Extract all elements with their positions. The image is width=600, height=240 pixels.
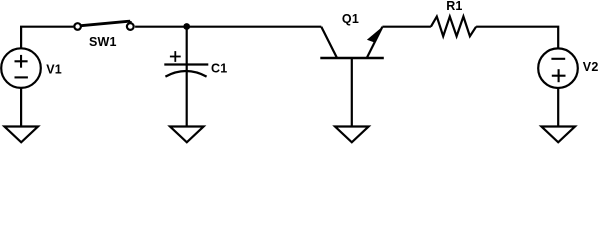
svg-text:SW1: SW1 — [89, 35, 117, 49]
svg-text:C1: C1 — [211, 62, 227, 76]
svg-text:V2: V2 — [583, 60, 599, 74]
svg-text:V1: V1 — [46, 63, 62, 77]
svg-text:Q1: Q1 — [342, 12, 359, 26]
svg-text:R1: R1 — [446, 0, 462, 13]
